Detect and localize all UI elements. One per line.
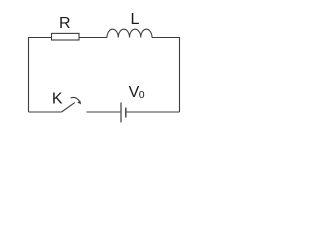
svg-text:L: L	[130, 11, 139, 28]
wire resistor to inductor	[79, 37, 107, 39]
wire left vertical and top-left segment	[29, 38, 52, 113]
wire top-right and right vertical	[152, 38, 180, 113]
switch K lever	[62, 103, 75, 112]
wire battery to right corner	[127, 111, 180, 113]
switch arrowhead	[77, 101, 81, 105]
inductor L	[107, 29, 152, 37]
svg-text:K: K	[52, 90, 63, 107]
wire switch to battery	[87, 111, 121, 113]
wire bottom-left	[29, 111, 62, 113]
svg-text:0: 0	[139, 89, 145, 101]
battery short plate	[125, 108, 127, 118]
battery long plate	[120, 103, 122, 123]
resistor R	[52, 33, 80, 40]
switch arrow arc	[71, 97, 80, 101]
svg-text:R: R	[59, 15, 71, 32]
